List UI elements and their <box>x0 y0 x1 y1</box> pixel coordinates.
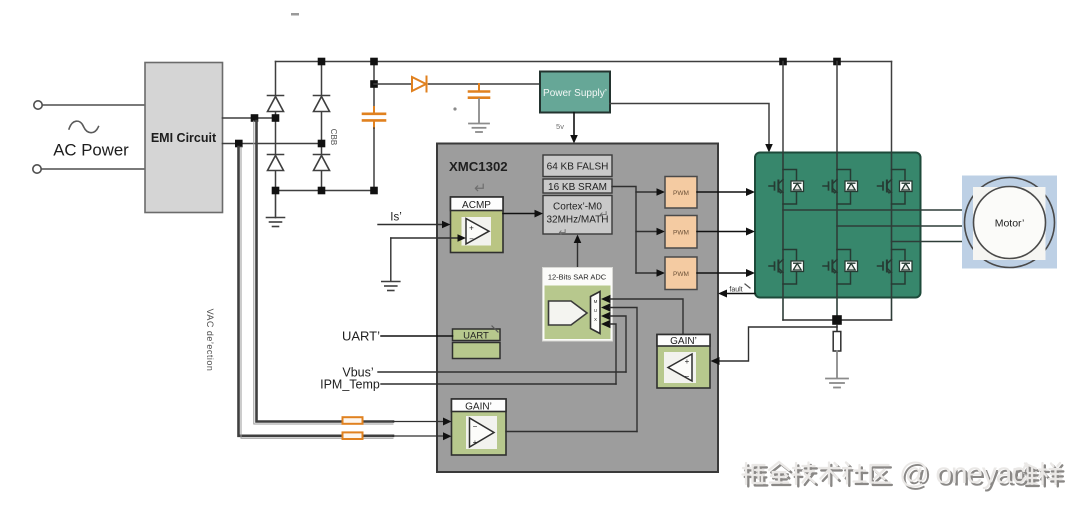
svg-text:↵: ↵ <box>474 180 487 197</box>
PWM3 block <box>665 257 697 290</box>
phase verticals inside IPM <box>782 153 784 321</box>
svg-text:−: − <box>469 235 474 244</box>
wire PS output to inverter <box>610 104 769 147</box>
svg-text:AC Power: AC Power <box>53 141 129 160</box>
svg-text:X: X <box>594 317 597 322</box>
svg-text:Power Supply’: Power Supply’ <box>543 88 607 99</box>
wire PWM1 to gate U <box>697 191 749 193</box>
wire bridge leg 2 vertical <box>321 62 323 191</box>
mux input arrow 3 <box>601 312 611 320</box>
diode D2 (leg1 lower) <box>268 155 284 171</box>
wire Vbus <box>378 371 626 373</box>
wire PWM2 to gate V <box>697 231 749 233</box>
PWM2 block <box>665 216 697 249</box>
wire rail drop phase 2 <box>836 62 838 153</box>
svg-text:+: + <box>473 438 478 447</box>
diode D3 (leg2 upper) <box>314 96 330 112</box>
IGBT Q2 with diode <box>823 170 858 205</box>
svg-text:↵: ↵ <box>599 209 608 221</box>
svg-text:64 KB FALSH: 64 KB FALSH <box>547 162 609 173</box>
artifact dot <box>453 107 456 110</box>
shunt resistor R1 <box>836 325 838 332</box>
wire GAIN1 output <box>506 431 637 433</box>
diode D1 (leg1 upper) <box>268 96 284 112</box>
capacitor C1 DC bus (orange) <box>363 62 385 191</box>
wire mux1 from GAIN2 top <box>610 299 683 335</box>
IGBT Q5 with diode <box>823 250 858 285</box>
wire current sense to GAIN2 <box>718 327 837 361</box>
wire bridge leg 1 vertical <box>275 62 277 191</box>
svg-text:fault: fault <box>729 287 742 294</box>
wire rail drop phase 1 <box>782 62 784 153</box>
IGBT Q3 with diode <box>878 170 913 205</box>
wire bus to PWM3 <box>636 272 659 274</box>
IGBT Q4 with diode <box>769 250 804 285</box>
IGBT Q6 with diode <box>878 250 913 285</box>
mux input arrow 4 <box>601 320 611 328</box>
svg-text:GAIN’: GAIN’ <box>670 336 697 347</box>
diode D4 (leg2 lower) <box>314 155 330 171</box>
ground GND3 <box>382 282 400 291</box>
wire AC line lower (EMI to bridge leg 2) <box>223 143 322 145</box>
XMC1302 U1 block <box>437 144 718 473</box>
wire mux3 from Vbus <box>610 316 626 372</box>
power supply U2 block <box>540 72 610 113</box>
svg-text:M: M <box>594 299 598 304</box>
svg-text:+: + <box>469 224 474 233</box>
IGBT Q1 with diode <box>769 170 804 205</box>
mux input arrow 1 <box>601 295 611 303</box>
wire DC tap to power supply <box>374 83 412 85</box>
junction nodes (black squares) <box>235 58 841 195</box>
svg-text:IPM_Temp: IPM_Temp <box>320 378 380 392</box>
terminal T2 <box>33 165 41 173</box>
svg-text:XMC1302: XMC1302 <box>449 159 508 174</box>
wire DC+ top rail <box>276 61 892 63</box>
svg-text:+: + <box>685 357 690 366</box>
mux input arrow 2 <box>601 303 611 311</box>
wire VAC sense 1 (from AC line upper) thick <box>257 121 394 422</box>
UART block <box>453 326 501 359</box>
svg-text:12-Bits SAR ADC: 12-Bits SAR ADC <box>548 273 607 282</box>
wire Is into ACMP <box>378 224 444 226</box>
wire mux4 from IPM_Temp <box>610 324 616 384</box>
svg-text:−: − <box>473 422 478 431</box>
svg-text:−: − <box>685 372 690 381</box>
wire mux2 from GAIN1 output <box>610 308 637 432</box>
SAR ADC block <box>543 268 613 342</box>
phase W output <box>892 241 974 243</box>
memory 64KB FLASH <box>543 155 612 177</box>
memory 16KB SRAM <box>543 179 612 193</box>
wire IPM_Temp <box>381 383 616 385</box>
svg-text:5v: 5v <box>556 122 564 131</box>
svg-text:@ oneyac: @ oneyac <box>899 457 1026 490</box>
resistor R3 (orange) <box>343 432 363 439</box>
wire ACMP output to CPU <box>503 213 537 215</box>
CPU Cortex-M0 <box>543 196 612 235</box>
capacitor C2 filter (orange) <box>469 84 489 123</box>
svg-text:PWM: PWM <box>673 190 689 197</box>
wire DC+ rail drop to inverter phase 3 <box>891 62 893 153</box>
wire DC- return left <box>783 319 837 321</box>
PWM1 block <box>665 177 697 209</box>
GAIN2 block (right) <box>657 335 710 389</box>
EMI Circuit block <box>145 63 223 213</box>
terminal T1 <box>34 101 42 109</box>
watermark text <box>743 457 1064 492</box>
artifact dash top <box>291 13 299 16</box>
svg-text:Motor’: Motor’ <box>995 218 1025 230</box>
wire 5v arrow into MCU <box>573 113 575 138</box>
IPM inverter block <box>755 153 921 298</box>
wire fault to MCU <box>725 293 755 295</box>
wire ACMP neg input from ground <box>391 237 458 239</box>
wire SRAM to PWM bus <box>612 187 636 274</box>
GAIN1 block (bottom) <box>452 399 507 455</box>
resistor R2 (orange) <box>343 417 363 424</box>
wire DC- bottom rail <box>276 190 375 192</box>
AC sine symbol <box>69 121 99 133</box>
wire DC- return right <box>837 319 892 321</box>
wire sense1 into GAIN1 <box>393 421 444 423</box>
diode D5 (orange) <box>412 77 427 92</box>
wire VAC sense 2 (from AC line lower) thick <box>239 147 394 436</box>
svg-text:↵: ↵ <box>558 227 567 239</box>
svg-text:EMI Circuit: EMI Circuit <box>151 131 217 145</box>
svg-text:GAIN’: GAIN’ <box>465 402 492 413</box>
ground GND1 under leg1 <box>267 191 285 227</box>
svg-text:PWM: PWM <box>673 271 689 278</box>
wire bus to PWM2 <box>636 231 659 233</box>
motor M1 <box>962 176 1057 269</box>
wire AC line upper (EMI to bridge leg 1) <box>223 117 276 119</box>
svg-text:16 KB SRAM: 16 KB SRAM <box>548 182 607 193</box>
wire ADC to CPU (up arrow) <box>577 241 579 268</box>
phase U output <box>783 209 973 211</box>
ground GND2 (gray) <box>469 124 489 133</box>
svg-text:UART’: UART’ <box>342 329 380 344</box>
wire sense2 into GAIN1 <box>393 435 444 437</box>
node DC- junction <box>832 315 842 325</box>
IGBT cells <box>769 170 912 285</box>
ground GND4 <box>826 379 848 388</box>
svg-text:ACMP: ACMP <box>462 200 491 211</box>
svg-text:U: U <box>594 308 597 313</box>
wire PWM3 to gate W <box>697 272 749 274</box>
svg-text:PWM: PWM <box>673 230 689 237</box>
svg-text:UART: UART <box>463 331 489 342</box>
wire N to EMI <box>41 168 145 170</box>
wire bus to PWM1 <box>636 191 659 193</box>
wire L1 to EMI <box>42 104 145 106</box>
wire UART <box>381 335 453 337</box>
svg-text:Cortex’-M0: Cortex’-M0 <box>553 202 602 213</box>
svg-text:VAC de’ection: VAC de’ection <box>205 309 215 372</box>
svg-text:CBB: CBB <box>329 129 338 145</box>
ACMP block <box>451 197 504 253</box>
phase V output <box>837 225 973 227</box>
svg-text:Is’: Is’ <box>390 212 402 224</box>
